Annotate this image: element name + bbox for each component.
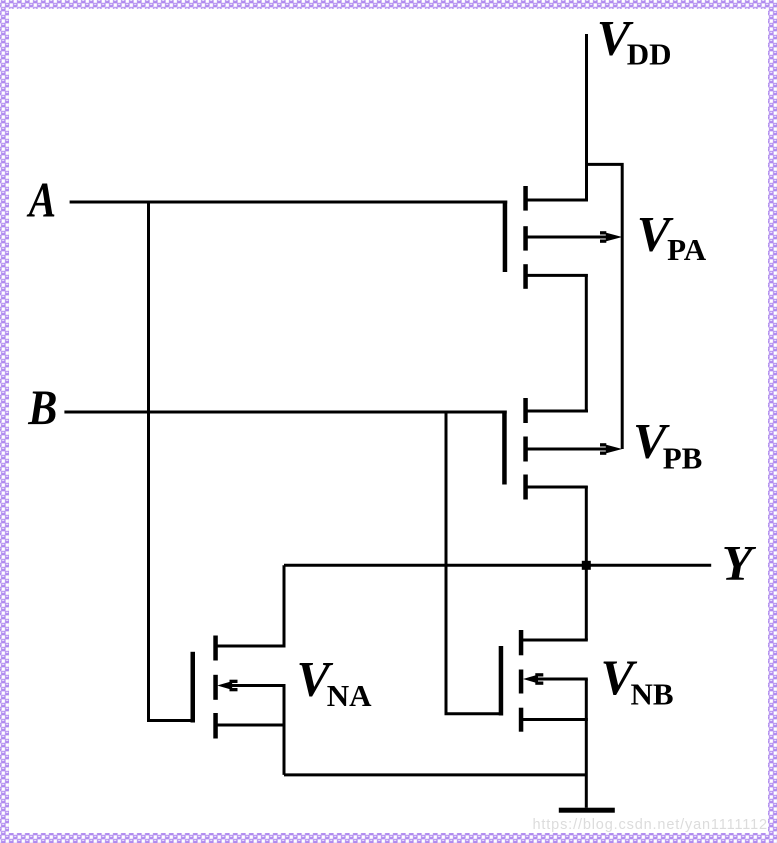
wire VNA bulk-source down to ground rail: [283, 686, 286, 775]
transistor VPA: [503, 186, 623, 289]
svg-text:Y: Y: [722, 534, 757, 590]
channel bars VNA: [213, 636, 218, 661]
bulk stub VPA with arrow: [526, 236, 606, 239]
ground: [559, 808, 615, 813]
svg-text:https://blog.csdn.net/yan11111: https://blog.csdn.net/yan1111112: [533, 817, 768, 833]
bulk stub VNA with arrow: [230, 684, 286, 687]
wire output Y horizontal: [284, 564, 711, 567]
transistor VPB: [502, 398, 622, 500]
wire VPA drain to VPB source: [585, 274, 588, 413]
wire VDD vertical: [585, 34, 588, 202]
svg-text:NA: NA: [327, 678, 372, 713]
svg-text:B: B: [27, 380, 57, 435]
source stub VNB: [521, 718, 588, 721]
svg-text:DD: DD: [627, 36, 672, 71]
channel bars VPA: [523, 186, 528, 211]
border top: [0, 0, 777, 9]
wire Y down to VNA drain: [283, 565, 286, 646]
drain stub VPA: [526, 274, 588, 277]
svg-text:NB: NB: [631, 676, 674, 711]
wire VPB drain down to node Y: [585, 486, 588, 566]
svg-text:A: A: [26, 171, 56, 227]
drain stub VPB: [526, 486, 588, 489]
source stub VPB: [526, 410, 588, 413]
gate plate VPB: [502, 411, 507, 485]
wire VDD branch to bulk rail: [587, 164, 623, 449]
wire node Y to VNB drain: [585, 565, 588, 640]
border left: [0, 0, 9, 843]
gate plate VPA: [503, 201, 508, 273]
bulk stub VPB with arrow: [526, 448, 606, 451]
source stub VNA: [216, 724, 286, 727]
wire ground rail horizontal: [284, 773, 586, 776]
node Y junction dot: [582, 561, 591, 570]
wire VNB source down to ground: [585, 679, 588, 808]
wire input A horizontal: [70, 201, 508, 204]
gate plate VNA: [191, 652, 196, 723]
bulk stub VNB with arrow: [535, 678, 588, 681]
source stub VPA: [526, 199, 588, 202]
drain stub VNB: [521, 639, 588, 642]
wire input B horizontal: [64, 411, 506, 414]
wire A branch down to VNA gate: [149, 202, 193, 721]
svg-text:PA: PA: [667, 232, 707, 267]
gate plate VNB: [499, 646, 504, 716]
transistor VNB: [499, 630, 588, 732]
border right: [768, 0, 777, 843]
channel bars VPB: [523, 398, 528, 423]
drain stub VNA: [216, 645, 286, 648]
wire B branch down to VNB gate: [446, 412, 501, 714]
svg-text:PB: PB: [663, 440, 703, 475]
border bottom: [0, 833, 777, 843]
transistor VNA: [191, 636, 286, 739]
channel bars VNB: [519, 630, 524, 655]
